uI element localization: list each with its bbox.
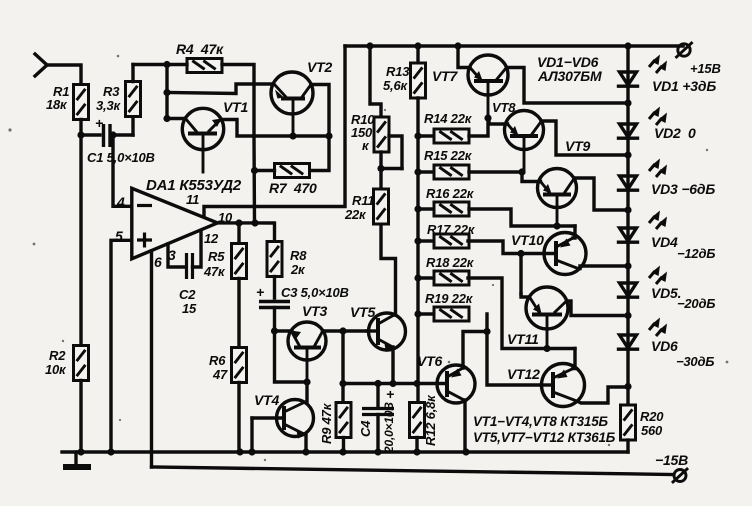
resistor R17 [418, 222, 476, 248]
wire VT6 emitter to R19 node [463, 328, 491, 368]
LED VD1 [619, 55, 717, 95]
svg-text:VT1−VT4,VT8 КТ315Б: VT1−VT4,VT8 КТ315Б [473, 414, 608, 429]
svg-text:VD6: VD6 [651, 338, 678, 354]
resistor R12 [410, 394, 439, 452]
wire R10 bottom to R11 top [377, 152, 402, 189]
svg-text:R20: R20 [640, 409, 664, 424]
transistor VT7 [432, 55, 508, 118]
svg-text:R9 47к: R9 47к [319, 402, 334, 444]
wire VT12 base from R19 [487, 314, 541, 385]
svg-text:R2: R2 [49, 348, 66, 363]
svg-text:+: + [95, 115, 103, 131]
pin 3 wire [168, 244, 186, 267]
svg-text:−20дБ: −20дБ [677, 296, 715, 311]
svg-text:R19 22к: R19 22к [425, 291, 474, 306]
node R14/VT7/VT8 [469, 114, 492, 136]
LED VD3 [619, 159, 716, 198]
node R17/VT10/VT11 [468, 241, 525, 294]
svg-text:−30дБ: −30дБ [676, 354, 714, 369]
svg-text:VT5: VT5 [350, 304, 375, 320]
transistor VT3 [288, 303, 327, 382]
node R15/VT8/VT9 [469, 168, 526, 175]
svg-text:R12 6,8к: R12 6,8к [423, 394, 438, 446]
node R16/VT9/VT10 [469, 209, 575, 230]
-15V terminal [655, 452, 688, 482]
svg-text:VT10: VT10 [511, 232, 544, 248]
svg-text:VT1: VT1 [223, 99, 248, 115]
resistor R1 [46, 84, 89, 120]
wire node to VT2 emitter path [167, 84, 273, 94]
pin 5 wire (non-inverting input) [111, 228, 132, 452]
transistor VT2 [271, 59, 332, 136]
wire VT9 emitter to R15 node [522, 172, 541, 182]
svg-text:R7 470: R7 470 [269, 180, 317, 196]
transistor VT8 [492, 100, 544, 172]
resistor R6 [209, 348, 247, 453]
-15V supply line [152, 467, 673, 475]
resistor R3 [96, 65, 141, 136]
wire input to R1 top [47, 65, 81, 85]
resistor R11 [344, 189, 389, 224]
LED VD2 [619, 107, 697, 142]
svg-text:2к: 2к [290, 262, 306, 277]
wire R5 bottom to R6 top [237, 279, 240, 349]
wire VT5 base node down to R9 top [341, 331, 344, 402]
X junction to VT2 base line [254, 132, 333, 139]
capacitor C1 [81, 115, 155, 165]
resistor R10 [351, 46, 389, 153]
capacitor C2 [179, 253, 197, 316]
svg-text:VT7: VT7 [432, 68, 458, 84]
transistor VT5 [350, 304, 406, 352]
svg-text:VT12: VT12 [507, 366, 540, 382]
svg-text:VT5,VT7−VT12 КТ361Б: VT5,VT7−VT12 КТ361Б [473, 430, 616, 445]
wire VT8 emitter to R14 node [489, 118, 508, 124]
capacitor C3 [256, 277, 349, 308]
LED chain wire [624, 46, 631, 405]
output pin 10 wire [218, 210, 273, 227]
wire VT7 emitter to +15V rail [458, 46, 470, 68]
wire R1 bottom to R2 top [79, 120, 82, 347]
svg-text:VD3 −6дБ: VD3 −6дБ [651, 181, 715, 197]
transistor VT6 [417, 353, 475, 403]
wire R4 right lead down to X junction [222, 65, 254, 137]
svg-text:R13: R13 [386, 64, 410, 79]
wire VT10 collector to VD4/VD5 node [578, 266, 628, 269]
LED VD6 [619, 318, 715, 370]
wire VT9 collector to VD3/VD4 node [575, 178, 629, 210]
resistor R7 [255, 164, 318, 197]
node line R9/C4/R12 [339, 380, 420, 387]
wire VT5 emitter down to common node line [391, 347, 395, 384]
wire VT7 collector to VD1/VD2 node [507, 68, 629, 104]
resistor R13 [383, 46, 426, 98]
svg-text:VT4: VT4 [254, 392, 279, 408]
svg-text:6: 6 [154, 254, 162, 270]
wire R4 left node down (VT1 base/collector column) [163, 65, 170, 123]
resistor R14 [418, 111, 473, 143]
transistor VT12 [507, 364, 585, 407]
svg-text:VD4: VD4 [651, 234, 678, 250]
svg-text:C4: C4 [358, 420, 373, 437]
wire VT2 collector down to R7 right [309, 85, 329, 171]
pin 11 wire to +15V rail [204, 46, 345, 217]
wire VT4 base to ground rail [250, 418, 253, 452]
svg-text:VT8: VT8 [492, 100, 516, 115]
svg-text:+: + [256, 284, 264, 300]
svg-text:C2: C2 [179, 287, 196, 302]
svg-text:3: 3 [168, 247, 176, 263]
wire VT4 emitter to ground rail [304, 434, 306, 452]
wire VT1 emitter to X junction [221, 120, 255, 137]
svg-text:10к: 10к [45, 362, 67, 377]
svg-text:VT11: VT11 [507, 331, 539, 347]
resistor R8 [267, 223, 307, 277]
resistor R16 [418, 186, 475, 216]
capacitor C4 [358, 384, 396, 455]
svg-text:VT2: VT2 [307, 59, 332, 75]
svg-text:R18 22к: R18 22к [426, 255, 475, 270]
resistor R4 [176, 41, 224, 73]
svg-text:22к: 22к [344, 207, 367, 222]
ground rail [62, 450, 628, 453]
svg-text:4: 4 [116, 194, 125, 210]
svg-text:R11: R11 [352, 193, 374, 208]
svg-text:3,3к: 3,3к [96, 98, 121, 113]
svg-text:C1 5,0×10В: C1 5,0×10В [87, 150, 155, 165]
wire VT12 collector to R20 node [578, 387, 628, 403]
resistor R5 [203, 223, 247, 279]
svg-text:15: 15 [182, 301, 197, 316]
svg-text:R17 22к: R17 22к [427, 222, 476, 237]
svg-text:5,6к: 5,6к [383, 78, 408, 93]
svg-text:VD2 0: VD2 0 [654, 125, 696, 141]
op-amp DA1 К553УД2 [132, 177, 242, 259]
wire VT8 collector to VD2/VD3 node [542, 121, 629, 155]
pin 12 wire [193, 231, 220, 268]
svg-text:R15 22к: R15 22к [424, 148, 473, 163]
svg-text:11: 11 [186, 192, 199, 207]
svg-text:47: 47 [212, 367, 228, 382]
svg-text:R16 22к: R16 22к [426, 186, 475, 201]
resistor R19 [418, 291, 474, 321]
transistor VT1 [167, 99, 248, 172]
svg-text:VT9: VT9 [565, 138, 590, 154]
svg-text:R6: R6 [209, 353, 226, 368]
transistor type note [473, 414, 616, 445]
svg-text:R5: R5 [208, 249, 225, 264]
transistor VT11 [507, 287, 568, 349]
svg-text:−12дБ: −12дБ [677, 246, 715, 261]
svg-text:12: 12 [204, 231, 219, 246]
svg-text:VD1 +3дБ: VD1 +3дБ [652, 78, 716, 94]
pin 4 wire (inverting input) [109, 131, 131, 210]
svg-text:R8: R8 [290, 248, 307, 263]
LED VD5 [619, 266, 716, 312]
rail junction dots [77, 448, 469, 455]
svg-text:47к: 47к [203, 264, 226, 279]
wire VT11 emitter to R17 node [521, 294, 530, 297]
svg-text:VT3: VT3 [302, 303, 327, 319]
wire VT5 collector up to R11 bottom [381, 224, 396, 315]
transistor VT10 [511, 232, 586, 275]
svg-text:18к: 18к [46, 97, 68, 112]
resistor R9 [319, 402, 351, 452]
resistor R18 [418, 255, 475, 285]
wire VT3 collector to VT5 base [323, 327, 368, 334]
resistor R20 [621, 405, 665, 452]
svg-text:R14 22к: R14 22к [424, 111, 473, 126]
svg-text:VT6: VT6 [417, 353, 442, 369]
svg-text:C3 5,0×10В: C3 5,0×10В [281, 285, 349, 300]
node A junction [77, 131, 84, 138]
svg-text:20,0×10В: 20,0×10В [382, 402, 396, 454]
LED VD4 [619, 211, 716, 262]
svg-text:560: 560 [641, 423, 663, 438]
svg-text:−15В: −15В [655, 452, 688, 468]
wire VT10 emitter up to R16 node [573, 226, 575, 238]
transistor VT4 [252, 392, 314, 439]
pin 6 wire to -15V line [152, 251, 163, 467]
svg-text:+15В: +15В [690, 61, 721, 76]
feeder line R13 bottom to R12 top [414, 98, 421, 402]
svg-text:R3: R3 [103, 84, 120, 99]
top +15V rail [345, 42, 683, 49]
wire VT12 emitter up to R18 node [573, 349, 575, 369]
resistor R2 [45, 346, 89, 453]
wire VT11 collector to VD5/VD6 node [567, 301, 629, 316]
svg-text:R4 47к: R4 47к [176, 41, 224, 57]
wire VT3 base node down to VT4 collector [305, 382, 308, 402]
wire C3 bottom / VT3 base node [271, 308, 311, 386]
wire R10 bottom tap hook [389, 136, 402, 169]
node R18/VT11/VT12 [468, 278, 575, 352]
resistor R15 [418, 148, 473, 179]
svg-text:+: + [386, 386, 394, 402]
wire VT6 collector to ground rail [464, 400, 465, 452]
transistor VT9 [538, 138, 591, 226]
svg-text:10: 10 [218, 210, 233, 225]
ground symbol [63, 452, 91, 467]
wire X junction down to output node [251, 136, 258, 223]
+15V terminal [677, 43, 721, 76]
input antenna terminal [35, 54, 47, 76]
LED type note [537, 54, 602, 84]
svg-text:5: 5 [115, 228, 123, 244]
svg-text:АЛ307БМ: АЛ307БМ [537, 68, 602, 84]
wire R3 top to R4 left node [133, 61, 187, 68]
